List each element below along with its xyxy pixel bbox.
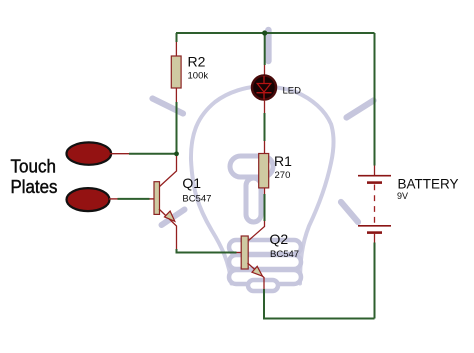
svg-text:Touch: Touch <box>11 155 57 176</box>
wire plate2 to Q1 base <box>118 198 150 200</box>
pin plate 2 <box>109 198 118 200</box>
base thread 1 <box>229 240 301 254</box>
pin LED cathode <box>264 100 266 113</box>
wire R1 to Q2 collector <box>264 194 266 221</box>
bulb glass outline <box>191 86 334 283</box>
base thread 3 <box>229 270 301 284</box>
base thread 2 <box>229 255 301 269</box>
resistor R2 <box>171 56 181 88</box>
svg-text:9V: 9V <box>397 191 408 201</box>
wire top rail <box>176 32 375 34</box>
transistor Q2 <box>241 221 264 289</box>
resistor R1 <box>259 154 269 188</box>
svg-text:BC547: BC547 <box>270 249 299 260</box>
node A junction dot <box>174 151 179 156</box>
wire Q1 emitter to Q2 base <box>177 249 237 253</box>
battery plate long 2 <box>358 225 391 227</box>
Q2 emitter arrow <box>252 266 263 276</box>
ray top <box>265 30 272 61</box>
svg-text:R1: R1 <box>274 153 292 169</box>
Q1 emitter pin <box>159 209 177 249</box>
transistor Q1 <box>154 156 177 249</box>
battery plate short 1 <box>367 181 382 184</box>
wire Q2 emitter to bottom rail <box>264 289 375 319</box>
pin Q2 base <box>237 252 242 254</box>
pin plate 1 <box>110 153 129 155</box>
svg-text:Plates: Plates <box>11 176 58 197</box>
Q2 emitter pin <box>248 263 265 289</box>
wire left rail upper (R2 branch) <box>176 33 178 42</box>
svg-text:Q2: Q2 <box>270 231 289 247</box>
pin R1 bottom <box>264 188 266 195</box>
ray lower-left <box>162 210 185 226</box>
LED D1 <box>252 76 276 100</box>
Q1 emitter arrow <box>165 211 175 221</box>
battery plate short 2 <box>367 231 382 234</box>
wire right rail lower <box>374 243 376 319</box>
ray lower-right <box>341 202 358 222</box>
wire LED to R1 <box>264 113 266 141</box>
wire node A to LED <box>264 33 266 65</box>
svg-text:270: 270 <box>275 170 291 181</box>
pin R2 bottom <box>175 88 177 102</box>
pin battery bottom <box>374 234 376 243</box>
svg-text:BC547: BC547 <box>182 193 211 204</box>
node B junction dot <box>262 30 267 35</box>
filament horizontal capsule <box>230 156 273 177</box>
svg-text:Q1: Q1 <box>182 175 201 191</box>
pin R1 top <box>264 141 266 154</box>
pin R2 top <box>175 42 177 56</box>
touch plate 1 <box>67 142 112 164</box>
Q1 collector pin <box>159 156 177 187</box>
ray upper-right <box>347 101 374 118</box>
filament vertical capsule <box>246 178 261 222</box>
wire plate1 to node A <box>129 153 177 155</box>
wire right rail upper <box>374 33 376 166</box>
pin Q1 base <box>150 198 155 200</box>
battery BAT1 <box>358 166 391 243</box>
pin battery top <box>374 166 376 176</box>
ray upper-left <box>153 99 184 114</box>
battery dashed link <box>374 185 376 225</box>
svg-text:BATTERY: BATTERY <box>398 176 459 191</box>
svg-text:100k: 100k <box>188 71 209 82</box>
base tip <box>248 280 278 291</box>
light-bulb watermark <box>153 30 374 291</box>
Q1 base bar <box>154 182 160 215</box>
svg-text:LED: LED <box>283 86 302 97</box>
battery plate long 1 <box>358 175 391 177</box>
Q2 base bar <box>241 236 248 269</box>
wire R2 to node A <box>176 102 178 154</box>
touch plate 2 <box>67 188 110 211</box>
pin LED anode <box>264 65 266 75</box>
svg-text:R2: R2 <box>188 54 206 70</box>
Q2 collector pin <box>249 221 265 241</box>
